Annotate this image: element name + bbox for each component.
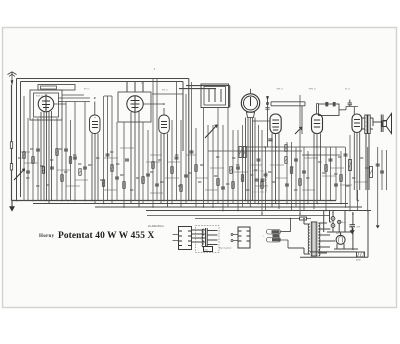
capacitor C22 xyxy=(329,159,333,161)
resistor R24 xyxy=(299,179,301,186)
IF transformer can B xyxy=(319,104,340,116)
wire V8 leads xyxy=(354,133,359,201)
coil box L2 xyxy=(34,93,59,117)
coil box L1 xyxy=(30,90,62,120)
resistor R20 xyxy=(261,182,263,189)
resistor R28 xyxy=(370,167,373,178)
capacitor C14 xyxy=(190,151,194,153)
capacitor C in dashed box xyxy=(255,179,259,181)
resistor R17 xyxy=(217,179,219,186)
wire plug B leads xyxy=(233,235,238,241)
power transformer secondary xyxy=(318,223,320,256)
tube V2 EF13 xyxy=(90,115,101,134)
capacitor C20 xyxy=(294,159,298,161)
resistor R6 xyxy=(69,157,71,164)
svg-text:EF 13: EF 13 xyxy=(84,89,90,91)
svg-text:4Ω50: 4Ω50 xyxy=(356,260,361,262)
wire EL to Tr2 xyxy=(362,118,373,129)
wire power verticals xyxy=(324,211,353,251)
capacitor C25 xyxy=(376,164,380,166)
capacitor C17 xyxy=(257,159,261,161)
wire V7 leads xyxy=(314,134,321,210)
tube V5 EM11 magic eye xyxy=(241,94,259,112)
resistor R21 xyxy=(285,145,287,152)
capacitor C3 xyxy=(50,167,54,169)
wire filter feed xyxy=(179,86,230,108)
resistor field coil xyxy=(357,252,365,257)
tuning arrow 2 xyxy=(14,169,25,180)
resistor R18 xyxy=(232,182,234,189)
tuning arrow 1 xyxy=(205,125,217,138)
resistor R19 xyxy=(241,175,243,182)
capacitor C11 xyxy=(155,184,159,186)
output transformer winding xyxy=(206,228,208,246)
wire EFM top link xyxy=(317,104,319,115)
wire eye top stub xyxy=(250,89,252,94)
coil box L3 xyxy=(118,92,151,122)
resistor R5 xyxy=(61,175,63,182)
resistor R1 xyxy=(23,152,25,159)
wires: horizontal jogs xyxy=(20,148,368,193)
ground symbol right xyxy=(350,231,354,234)
resistor R15 xyxy=(195,165,197,172)
capacitor C EBF cathode xyxy=(268,139,272,141)
wire mains leads xyxy=(281,219,291,249)
wire EBF anode links xyxy=(252,102,305,134)
wire V1 leads xyxy=(41,111,52,204)
svg-text:ΩΩ: ΩΩ xyxy=(205,250,208,252)
capacitor smoothing xyxy=(350,225,356,231)
wire L3 stubs xyxy=(127,82,143,93)
resistor R27 xyxy=(349,160,352,171)
wire bus 3 xyxy=(95,206,362,208)
connector plug B xyxy=(238,227,250,248)
lamp La1 xyxy=(331,217,335,221)
filter dashed box xyxy=(253,171,267,192)
lamp La3 xyxy=(338,220,341,223)
resistor R16 xyxy=(230,167,232,174)
resistor tap box xyxy=(204,247,213,252)
svg-text:AZ 11: AZ 11 xyxy=(336,232,341,235)
wire plug A to transformer xyxy=(192,230,206,242)
resistor R3 xyxy=(42,167,44,174)
ground symbol far right xyxy=(376,226,379,229)
dial scale box xyxy=(38,85,75,91)
svg-text:Skala: Skala xyxy=(341,222,346,224)
resistor R ant1 xyxy=(10,142,12,149)
filter box xyxy=(201,84,229,108)
tuning arrow EBF xyxy=(295,127,302,134)
ground symbol main xyxy=(11,201,13,207)
svg-text:EFM 11: EFM 11 xyxy=(309,88,317,90)
capacitor C24 xyxy=(344,154,348,156)
resistor R22 xyxy=(285,157,287,164)
svg-text:EL 11: EL 11 xyxy=(345,88,351,90)
capacitor C10 xyxy=(146,174,150,176)
resistor R25 xyxy=(325,165,327,172)
wire transformer connections xyxy=(288,219,335,255)
svg-text:Horny: Horny xyxy=(39,234,55,239)
tube V4 oval IF xyxy=(159,115,170,134)
wire V2 leads xyxy=(92,102,98,204)
wires: vertical bundle left-mid xyxy=(104,79,197,207)
capacitor C1 xyxy=(26,171,30,173)
output transformer Tr2 xyxy=(365,115,367,134)
capacitor C26 xyxy=(380,171,384,173)
capacitor C7 xyxy=(106,154,110,156)
tube V7 EFM11 xyxy=(312,114,323,134)
wire bus 2 xyxy=(33,203,348,205)
tube V8 EL11 xyxy=(352,114,362,133)
mains selector plug upper xyxy=(267,230,281,235)
capacitor C12 xyxy=(175,157,179,159)
capacitor C5 xyxy=(73,157,77,159)
svg-text:20–48kΩ/5Ωcm: 20–48kΩ/5Ωcm xyxy=(147,225,164,228)
wire antenna lead xyxy=(11,85,13,201)
resistor R10 xyxy=(123,182,125,189)
wire plug A leads xyxy=(173,235,179,241)
tube V9 AZ11 rectifier xyxy=(336,235,345,244)
capacitor C6 xyxy=(83,167,87,169)
wire frame outer xyxy=(17,79,189,201)
wire V5 leads xyxy=(246,118,256,208)
resistor R7 xyxy=(79,169,81,176)
svg-text:EBF 11: EBF 11 xyxy=(277,88,284,90)
mains selector contact xyxy=(273,234,280,237)
wire frame inner xyxy=(21,82,184,198)
wire V6 leads xyxy=(272,134,279,210)
antenna xyxy=(8,72,17,85)
resistor R9 xyxy=(111,165,113,172)
fuse Si xyxy=(291,218,312,220)
svg-text:EM 11: EM 11 xyxy=(162,90,169,92)
resistor R29 xyxy=(239,147,242,158)
resistor R30 xyxy=(243,147,246,158)
svg-text:Dyn.Lautspr.: Dyn.Lautspr. xyxy=(220,247,233,250)
resistor R4 xyxy=(56,149,58,156)
resistor R14 xyxy=(180,185,182,192)
micro value labels xyxy=(18,149,368,190)
wire EL grid line xyxy=(339,107,358,115)
capacitor C coupling right xyxy=(348,100,352,107)
wire speaker leads xyxy=(366,118,381,190)
mains selector plug lower xyxy=(267,238,281,243)
resistor R8 xyxy=(102,180,104,187)
wire transformer taps xyxy=(207,231,217,245)
lamp La2 xyxy=(331,224,335,228)
resistor R antenna xyxy=(10,164,12,171)
wire bus 5 xyxy=(147,216,330,219)
resistor R2 xyxy=(32,157,34,164)
wire power bottom xyxy=(300,211,368,258)
capacitor C21 xyxy=(302,171,306,173)
capacitor C13 xyxy=(184,175,188,177)
resistor R12 xyxy=(152,162,154,169)
capacitor C2 xyxy=(36,149,40,151)
capacitor C23 xyxy=(334,184,338,186)
speaker LS xyxy=(381,115,383,133)
wire V3 leads xyxy=(131,112,139,208)
wire bus 4 xyxy=(146,210,371,212)
wire V3 couplings xyxy=(54,94,183,104)
capacitor C4 xyxy=(64,149,68,151)
wire ground bus 1 xyxy=(12,200,336,202)
wires: vertical bundle right xyxy=(266,95,387,225)
capacitor C9 xyxy=(125,159,129,161)
wire rectifier leads xyxy=(334,244,358,249)
wire lamp chain xyxy=(333,212,339,232)
capacitor C16 xyxy=(236,167,240,169)
tube V3 ECH11b xyxy=(127,96,143,112)
capacitor C18 xyxy=(264,174,268,176)
capacitor C15 xyxy=(221,187,225,189)
power transformer core xyxy=(311,222,317,256)
wires: vertical bundle far-left xyxy=(24,96,85,201)
output transformer dashed enclosure xyxy=(196,226,220,253)
tube V6 EBF11 xyxy=(270,114,281,134)
wire V4 leads xyxy=(161,108,168,207)
wire AVC line xyxy=(208,147,345,155)
capacitor C eye xyxy=(265,96,269,147)
svg-text:Potentat 40 W W 455 X: Potentat 40 W W 455 X xyxy=(58,231,154,241)
capacitor C19 xyxy=(285,184,289,186)
resistor R11 xyxy=(142,177,144,184)
resistor R23 xyxy=(290,167,292,174)
tube V1 ECH11 xyxy=(38,96,54,112)
wire coupling coils xyxy=(58,95,90,102)
power transformer primary xyxy=(308,224,310,254)
svg-text:ECH 11: ECH 11 xyxy=(36,96,44,98)
capacitor C8 xyxy=(115,177,119,179)
resistor R26 xyxy=(340,175,342,182)
connector plug A xyxy=(179,227,192,250)
resistor R13 xyxy=(171,167,173,174)
wires: vertical bundle centre xyxy=(204,108,263,215)
